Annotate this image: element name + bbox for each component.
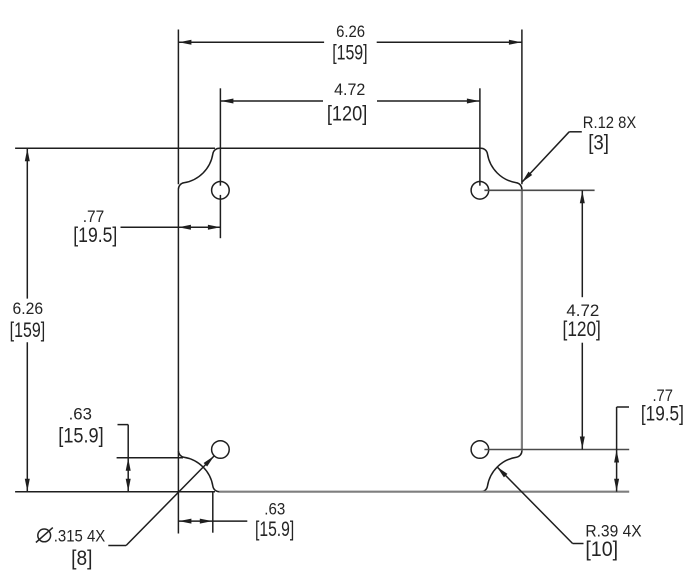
- extension line right from bottom-right hole (4.72 / .77 dims): [484, 449, 629, 451]
- leader R.39: [573, 543, 584, 545]
- svg-text:6.26: 6.26: [13, 299, 44, 318]
- svg-text:.315 4X: .315 4X: [54, 526, 106, 545]
- extension line top edge leftward (for left 6.26 dim): [15, 147, 215, 149]
- right edge (grey): [521, 189, 523, 451]
- svg-text:[19.5]: [19.5]: [73, 224, 117, 247]
- text dia .315 4X: [38, 529, 51, 542]
- dim line top 4.72: [220, 100, 323, 102]
- dim line right 4.72: [581, 190, 583, 297]
- extension line right from top-right hole (right 4.72 dim): [484, 189, 594, 191]
- svg-text:[3]: [3]: [588, 132, 609, 155]
- extension line right edge upward (for top 6.26 dim): [521, 30, 523, 185]
- svg-text:[120]: [120]: [563, 318, 601, 341]
- svg-text:.63: .63: [264, 500, 285, 519]
- dim line bottom .63: [178, 520, 247, 522]
- dim line left .77: [121, 226, 221, 228]
- leader R.12: [569, 131, 582, 133]
- bottom edge + its rightward extension (grey): [219, 491, 629, 493]
- extension line through top-left hole (4.72 / .77 dims): [219, 88, 221, 185]
- extension line left edge upward (for top 6.26 dim): [177, 30, 179, 185]
- panel cutout outline with corner reliefs: [178, 148, 522, 491]
- hole top-right: [471, 182, 489, 200]
- svg-text:4.72: 4.72: [334, 80, 365, 99]
- extension line bottom edge leftward (for left 6.26 dim): [15, 491, 215, 493]
- hole bottom-right: [471, 441, 489, 459]
- dim line left .63: [127, 425, 129, 492]
- svg-text:[15.9]: [15.9]: [255, 518, 294, 541]
- dim line left 6.26: [26, 148, 28, 298]
- svg-text:[159]: [159]: [332, 42, 367, 65]
- svg-text:6.26: 6.26: [336, 22, 365, 41]
- extension line below bottom-left relief extremum (.63 bottom dim): [212, 492, 214, 533]
- svg-text:R.12 8X: R.12 8X: [583, 113, 636, 132]
- dim line top 6.26: [178, 41, 324, 43]
- svg-text:.63: .63: [69, 404, 92, 423]
- extension line below left edge (.63 bottom dim): [177, 451, 179, 533]
- svg-text:[19.5]: [19.5]: [641, 403, 684, 426]
- hole bottom-left: [212, 441, 230, 459]
- extension line to top-right hole (4.72 dim): [479, 88, 481, 185]
- leader dia .315: [108, 545, 126, 547]
- svg-text:[10]: [10]: [585, 538, 618, 561]
- svg-text:[120]: [120]: [327, 103, 367, 126]
- hole top-left: [212, 182, 230, 200]
- svg-text:[159]: [159]: [10, 319, 46, 342]
- extension line left from bottom-left relief (.63 dim): [117, 457, 183, 459]
- svg-text:[15.9]: [15.9]: [58, 425, 103, 448]
- svg-text:[8]: [8]: [71, 547, 92, 570]
- dim line right .77: [616, 407, 618, 492]
